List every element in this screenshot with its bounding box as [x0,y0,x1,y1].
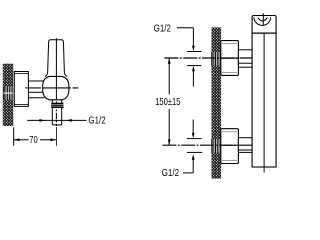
outlet thread band (dark) [51,103,63,108]
connecting pipe flange to valve body [28,81,44,98]
wall section (hatched), right view [212,27,222,178]
top inlet centerline [164,57,254,59]
svg-text:70: 70 [29,134,38,145]
top inlet pipe [238,50,252,67]
G1/2 top label with leader [177,28,195,52]
svg-text:G1/2: G1/2 [162,167,179,178]
G1/2 dimension line (left view outlet) [27,119,86,122]
handle block (front view) [252,13,276,33]
bottom G1/2 upper arrow (pointing down) [192,120,195,139]
horizontal centerline through valve body [25,87,27,89]
lever handle left view [45,40,67,77]
top G1/2 extension ticks [187,52,202,66]
wall thread fitting (dark block) left view [3,86,12,99]
bottom G1/2 extension ticks [187,139,202,153]
valve body (ball) left view [43,76,69,99]
vertical centerline through handle/body/outlet [55,38,57,145]
bottom union nut [221,129,239,164]
svg-text:G1/2: G1/2 [88,115,105,126]
150±15 dimension line [168,58,171,145]
bottom wall thread fitting (dark block) [211,139,221,153]
outlet tube left view [52,100,61,125]
flange (escutcheon) left view [14,72,28,107]
bottom G1/2 lower arrow (pointing up) with leader [183,154,195,173]
svg-text:G1/2: G1/2 [154,23,171,34]
body column [252,33,276,172]
top wall thread fitting (dark block) [211,52,221,66]
top union nut [221,41,239,76]
wall section (hatched), left view [3,64,14,126]
bottom inlet pipe [238,138,252,153]
bottom inlet centerline [162,144,255,146]
svg-text:150±15: 150±15 [155,96,180,107]
70 dimension (left view) [14,127,57,145]
top G1/2 lower arrow (pointing up) [192,66,195,87]
